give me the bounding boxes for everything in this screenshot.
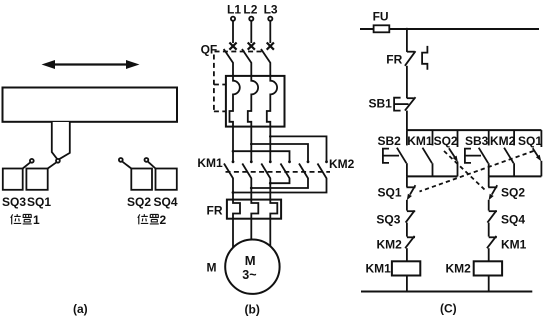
right trunk to SQ2 bbox=[488, 176, 490, 187]
svg-text:(C): (C) bbox=[440, 302, 457, 316]
SQ2 box bbox=[131, 169, 152, 190]
svg-text:SQ4: SQ4 bbox=[154, 195, 178, 209]
SQ3 box bbox=[3, 169, 23, 190]
wire feed3 to FR bbox=[269, 183, 271, 199]
L2 terminal bbox=[249, 17, 253, 21]
svg-text:FR: FR bbox=[207, 204, 223, 218]
svg-text:SB2: SB2 bbox=[378, 134, 402, 148]
wire FR to motor 1 bbox=[232, 219, 234, 248]
SQ4 NC contact bbox=[487, 211, 497, 237]
workbench table rectangle bbox=[3, 88, 178, 122]
svg-text:SQ4: SQ4 bbox=[501, 213, 525, 227]
SQ1 NC contact with arrow bbox=[406, 185, 415, 210]
SQ1 lever circle (at cam tip) bbox=[56, 159, 60, 163]
rail SB1 to bus bbox=[406, 111, 408, 131]
QF dashed vertical bbox=[213, 55, 215, 112]
wire KM2 coil to bottom bus bbox=[488, 276, 490, 292]
svg-text:KM1: KM1 bbox=[407, 134, 433, 148]
wire FR to motor 2 bbox=[250, 219, 252, 240]
wire pole2 down bbox=[250, 127, 252, 162]
FR heater element 2 bbox=[251, 200, 258, 219]
QF dashed stub lower bbox=[214, 110, 226, 112]
junction pole2/branch bbox=[250, 143, 253, 146]
svg-text:(b): (b) bbox=[245, 303, 260, 317]
QF pole 2 contact X bbox=[248, 43, 255, 50]
SB3 start button NO bbox=[465, 130, 489, 176]
KM2 coil bbox=[474, 261, 502, 275]
QF pole 1 blade bbox=[224, 49, 233, 76]
svg-text:SQ1: SQ1 bbox=[27, 195, 51, 209]
junction pole1/branch bbox=[232, 150, 235, 153]
motor M circle bbox=[225, 240, 279, 294]
FR heater element 3 bbox=[270, 200, 277, 219]
cam dog bbox=[52, 122, 70, 160]
junction phase2/wireB bbox=[250, 187, 253, 190]
svg-text:L3: L3 bbox=[264, 2, 278, 16]
label 位置1 (drawn glyphs) bbox=[11, 213, 40, 227]
wire L1 drop bbox=[232, 21, 234, 43]
QF pole 2 release elements bbox=[248, 76, 258, 127]
top supply line bbox=[360, 28, 539, 30]
svg-text:KM2: KM2 bbox=[377, 238, 403, 252]
svg-text:KM2: KM2 bbox=[329, 157, 355, 171]
SQ1 linkage dashed bbox=[420, 151, 534, 192]
SQ1 contact NO with arrow bbox=[533, 130, 542, 176]
SQ2 NC contact with arrow bbox=[488, 185, 497, 210]
SQ4 box bbox=[156, 169, 177, 190]
SQ2 linkage dashed bbox=[444, 151, 485, 190]
FR thermal relay box bbox=[227, 200, 281, 219]
QF breaker box bbox=[226, 76, 285, 127]
left trunk to SQ1 bbox=[406, 176, 408, 187]
wire FR to motor 3 bbox=[269, 219, 271, 248]
QF pole 2 blade bbox=[242, 49, 251, 76]
KM2 contact 4 bbox=[270, 160, 291, 183]
svg-text:SQ3: SQ3 bbox=[2, 195, 26, 209]
svg-text:3~: 3~ bbox=[242, 268, 256, 282]
svg-text:L1: L1 bbox=[227, 2, 241, 16]
svg-text:SQ2: SQ2 bbox=[434, 134, 458, 148]
FR heater element 1 bbox=[233, 200, 240, 219]
svg-text:KM1: KM1 bbox=[366, 262, 392, 276]
wire L2 drop bbox=[250, 21, 252, 43]
wire feed1 to FR bbox=[232, 193, 234, 200]
svg-text:(a): (a) bbox=[73, 302, 88, 316]
wire L3 drop bbox=[269, 21, 271, 43]
SQ3 lever bbox=[23, 162, 31, 168]
junction phase3/wireA bbox=[269, 182, 272, 185]
lower bus left bbox=[407, 175, 458, 177]
KM1 contact 1 bbox=[224, 160, 234, 192]
svg-text:SQ1: SQ1 bbox=[378, 186, 402, 200]
lower bus right bbox=[489, 175, 542, 177]
KM1 coil bbox=[392, 261, 420, 275]
svg-text:SQ2: SQ2 bbox=[127, 195, 151, 209]
FR NC contact bbox=[405, 46, 428, 70]
svg-text:SQ2: SQ2 bbox=[501, 186, 525, 200]
wire branch phase1 to KM2 contact4 bbox=[233, 151, 290, 162]
svg-text:FU: FU bbox=[373, 9, 389, 23]
svg-text:M: M bbox=[207, 261, 217, 275]
KM2 aux contact NO bbox=[504, 130, 514, 176]
KM1 contact 2 bbox=[242, 160, 252, 188]
svg-text:M: M bbox=[245, 253, 256, 268]
SB1 stop button NC bbox=[394, 97, 415, 110]
QF pole 3 contact X bbox=[267, 43, 274, 50]
QF pole 1 contact X bbox=[229, 43, 236, 50]
svg-text:KM2: KM2 bbox=[446, 262, 472, 276]
svg-text:1: 1 bbox=[33, 213, 40, 227]
label 位置2 (drawn glyphs) bbox=[138, 213, 167, 227]
SQ2 contact NO with arrow bbox=[449, 130, 458, 176]
svg-text:SQ1: SQ1 bbox=[518, 134, 542, 148]
svg-text:KM1: KM1 bbox=[197, 156, 223, 170]
SQ2 lever circle bbox=[119, 158, 123, 162]
KM2 contact 6 bbox=[233, 160, 328, 192]
SQ3 NC contact bbox=[406, 211, 416, 237]
KM2 interlock NC contact bbox=[405, 236, 415, 261]
SQ3 lever circle bbox=[30, 159, 34, 163]
KM1 aux contact NO bbox=[423, 130, 433, 176]
wire branch phase2 to KM2 contact5 bbox=[251, 144, 308, 162]
svg-text:L2: L2 bbox=[243, 2, 257, 16]
control rail from line bbox=[406, 29, 408, 52]
wire KM1 coil to bottom bus bbox=[406, 276, 408, 292]
L1 terminal bbox=[231, 17, 235, 21]
QF pole 3 release elements bbox=[267, 76, 277, 127]
QF pole 1 release elements bbox=[230, 76, 240, 127]
SQ2 lever bbox=[122, 161, 131, 168]
junction rail/top line bbox=[406, 28, 409, 31]
KM2 contact 5 bbox=[251, 160, 309, 188]
svg-text:2: 2 bbox=[160, 213, 167, 227]
L3 terminal bbox=[268, 17, 272, 21]
svg-text:SB1: SB1 bbox=[369, 97, 393, 111]
SQ4 lever circle bbox=[145, 158, 149, 162]
wire branch phase3 to KM2 contact6 bbox=[270, 136, 326, 161]
bottom bus bbox=[361, 291, 532, 293]
wire pole1 to KM1 contact1 bbox=[232, 127, 234, 162]
wire pole3 down bbox=[269, 127, 271, 162]
svg-text:SB3: SB3 bbox=[465, 134, 489, 148]
svg-text:QF: QF bbox=[201, 43, 218, 57]
double arrow (travel direction) bbox=[42, 60, 140, 69]
svg-text:FR: FR bbox=[386, 53, 402, 67]
KM1-KM2 mechanical link dashed bbox=[226, 171, 331, 173]
QF pole 3 blade bbox=[261, 49, 270, 76]
KM1 interlock NC contact bbox=[487, 236, 497, 261]
svg-text:SQ3: SQ3 bbox=[376, 213, 400, 227]
junction pole3/branch bbox=[269, 135, 272, 138]
SB2 start button NO bbox=[383, 130, 407, 176]
QF mechanical link dashed bbox=[215, 51, 265, 53]
SQ1 lever bbox=[48, 162, 57, 168]
junction phase1/wireC bbox=[232, 191, 235, 194]
SQ1 box bbox=[26, 169, 47, 190]
top bus bbox=[407, 129, 542, 131]
svg-text:KM1: KM1 bbox=[501, 238, 527, 252]
FU fuse bbox=[374, 25, 390, 32]
SQ4 lever bbox=[148, 161, 156, 168]
wire feed2 to FR bbox=[250, 188, 252, 200]
rail FR to SB1 bbox=[406, 66, 408, 99]
QF dashed stub upper bbox=[214, 84, 226, 86]
svg-text:KM2: KM2 bbox=[490, 134, 516, 148]
KM1 contact 3 bbox=[261, 160, 271, 183]
